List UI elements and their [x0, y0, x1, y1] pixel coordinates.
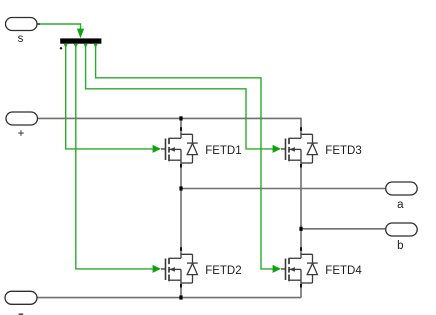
wire node a to port a: [181, 188, 386, 190]
wire gate signal 4 to FETD4: [94, 44, 281, 273]
port +: [6, 112, 38, 125]
transistor FETD4: [281, 254, 318, 283]
label - (cut off at image bottom): [19, 313, 24, 315]
transistor FETD1: [161, 134, 198, 163]
port mark FETD4 drain: [300, 247, 302, 251]
junction node + / FETD1 drain: [179, 116, 182, 120]
wire FETD2 source to - rail: [180, 283, 182, 298]
port mark FETD1 drain: [180, 127, 182, 131]
svg-text:s: s: [18, 33, 24, 45]
port mark FETD2 source: [180, 284, 182, 288]
svg-text:b: b: [397, 240, 403, 252]
port b: [386, 223, 418, 236]
svg-text:a: a: [397, 199, 404, 211]
svg-text:+: +: [18, 128, 25, 140]
wire node b column (FETD3 source to FETD4 drain): [300, 163, 302, 254]
wire gate signal 3 to FETD3: [84, 44, 281, 153]
port mark FETD4 source: [300, 284, 302, 288]
wire - rail bottom bus: [37, 297, 301, 299]
svg-text:FETD1: FETD1: [205, 145, 241, 157]
svg-text:FETD4: FETD4: [325, 265, 362, 277]
wire gate signal 1 to FETD1: [64, 44, 161, 153]
svg-text:FETD3: FETD3: [325, 145, 361, 157]
wire FETD4 source to - rail: [300, 283, 302, 298]
junction node b: [299, 227, 302, 231]
wire node a column (FETD1 source to FETD2 drain): [180, 163, 182, 254]
wire + rail from port + to FETD3 drain: [38, 118, 302, 134]
port mark FETD3 source: [300, 164, 302, 168]
svg-text:FETD2: FETD2: [205, 265, 241, 277]
port -: [5, 291, 37, 304]
port mark FETD1 source: [180, 164, 182, 168]
port mark FETD2 drain: [180, 247, 182, 251]
junction node - / FETD2 source: [179, 295, 182, 299]
wire s to demux: [38, 24, 85, 38]
port mark FETD3 drain: [300, 127, 302, 131]
transistor FETD2: [161, 254, 198, 283]
port a: [386, 182, 418, 195]
port s: [6, 18, 41, 31]
transistor FETD3: [281, 134, 318, 163]
wire gate signal 2 to FETD2: [74, 44, 161, 273]
wire node b to port b: [301, 228, 386, 230]
wire FETD1 drain riser: [180, 118, 182, 134]
junction node a: [179, 186, 182, 190]
demux DM1: [60, 38, 102, 49]
